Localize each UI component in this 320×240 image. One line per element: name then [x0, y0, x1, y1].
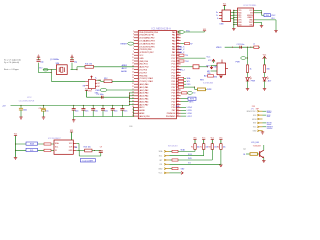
- svg-text:17: 17: [132, 74, 134, 76]
- svg-text:(T3/INT6) PE6: (T3/INT6) PE6: [139, 49, 151, 51]
- crystal Q1 body: [56, 65, 67, 75]
- LED LED2: [263, 78, 266, 81]
- IC3 left pin 6: [234, 21, 238, 23]
- junction C5 wire to bus: [129, 97, 130, 98]
- svg-text:18: 18: [132, 77, 134, 79]
- capacitor C3 10u polarized on rail: [43, 105, 44, 106]
- IC1 right pin 2: [176, 34, 180, 36]
- SV1 row3 wire with resistor: [169, 159, 172, 161]
- IC1 left pin 5: [134, 43, 138, 45]
- svg-text:IC5 MIC803: IC5 MIC803: [203, 82, 213, 84]
- wire stub gnd bus to IC1 pin row 28: [133, 109, 135, 111]
- svg-text:61: 61: [177, 112, 179, 114]
- wire VCC_IO horizontal: [225, 46, 260, 48]
- IC1 right pin 10: [176, 57, 180, 59]
- IC1 right pin 9: [176, 54, 180, 56]
- SV1 pin 1 contact: [164, 151, 166, 153]
- svg-text:41: 41: [177, 54, 179, 56]
- svg-text:58: 58: [177, 103, 179, 105]
- IC4 VCC top pin: [91, 77, 93, 80]
- IC4 right pin 3: [95, 85, 97, 87]
- ground rail under decoupling caps: [74, 116, 134, 118]
- X1 pin D- wire and label: [219, 14, 222, 16]
- boxed net flag LCD_A: [26, 142, 38, 145]
- svg-text:16M: 16M: [56, 63, 60, 65]
- junction: [133, 113, 134, 114]
- capacitor C6 22p at crystal left: [38, 63, 40, 73]
- svg-text:PC4: PC4: [172, 67, 176, 69]
- svg-text:PG1: PG1: [172, 81, 176, 83]
- svg-text:47: 47: [177, 71, 179, 73]
- JP1 pin 3 contact: [257, 118, 259, 120]
- IC1 right pin 13: [176, 66, 180, 68]
- IC1 right pin 18: [176, 80, 180, 82]
- svg-text:PDI/MOSI: PDI/MOSI: [167, 113, 176, 115]
- svg-text:PD6: PD6: [172, 90, 176, 92]
- ground small under IC3 right: [260, 25, 263, 27]
- capacitor C7 22p at crystal right: [71, 63, 73, 70]
- ferrite bead L1 inline: [254, 46, 259, 48]
- svg-text:C2,C3 DECOUPLE: C2,C3 DECOUPLE: [19, 100, 35, 102]
- svg-text:TDO: TDO: [185, 61, 189, 63]
- svg-text:Sx = C7 (adjusted): Sx = C7 (adjusted): [4, 58, 21, 61]
- svg-text:SCL: SCL: [187, 81, 191, 83]
- IC5 top pin: [221, 60, 223, 64]
- resistor inline row1: [44, 143, 51, 145]
- junction: [133, 110, 134, 111]
- wire to IC2 row2: [16, 149, 55, 151]
- IC3 left pin 1: [234, 9, 238, 11]
- ground symbol left of cap row: [73, 117, 75, 120]
- IC1 left pin 4: [134, 40, 138, 42]
- junction at crystal left: [51, 69, 52, 70]
- wires X1 to bus: [231, 11, 234, 13]
- svg-text:57: 57: [177, 100, 179, 102]
- IC1 left pin 9: [134, 54, 138, 56]
- JP1 pin 5 wire: [263, 126, 267, 128]
- IC1 right pin 28: [176, 109, 180, 111]
- svg-text:Best = +/-20ppm: Best = +/-20ppm: [4, 68, 19, 71]
- junction: [94, 150, 95, 151]
- IC1 left pin 30: [134, 115, 138, 117]
- wire up to R1: [194, 149, 196, 151]
- svg-text:10: 10: [132, 54, 134, 56]
- SV1 row2 wire: [169, 155, 203, 157]
- wire ladder bus left of IC3: [233, 10, 235, 24]
- svg-text:RESET: RESET: [121, 43, 128, 45]
- IC1 left pin 13: [134, 66, 138, 68]
- SV1 pin 5 contact: [164, 168, 166, 170]
- oval net flag PWR: [241, 57, 246, 60]
- capacitor C10 100n decoupling: [73, 105, 74, 106]
- IC1 right pin 23: [176, 95, 180, 97]
- svg-text:2X3: 2X3: [252, 106, 255, 108]
- power rail VCC horizontal wire: [11, 104, 130, 106]
- svg-text:55: 55: [177, 95, 179, 97]
- svg-text:npn: npn: [243, 149, 246, 151]
- svg-text:AGND: AGND: [139, 109, 145, 112]
- capacitor C5 100n inline: [100, 96, 102, 99]
- ground under IC3 left bus: [233, 25, 235, 29]
- svg-text:100n: 100n: [124, 111, 128, 113]
- IC1 left pin 12: [134, 63, 138, 65]
- resistor R3 pullup: [211, 144, 213, 150]
- svg-text:43: 43: [177, 60, 179, 62]
- svg-text:PDO/MISO: PDO/MISO: [166, 116, 176, 118]
- IC1 right pin 14: [176, 69, 180, 71]
- wire net row 28: [181, 109, 186, 111]
- junction: [133, 107, 134, 108]
- svg-text:37: 37: [177, 42, 179, 44]
- svg-text:100n: 100n: [94, 111, 98, 113]
- wire PEN to IC1: [107, 89, 134, 91]
- junction wire 2: [15, 150, 16, 151]
- resistor network box row 5: [181, 43, 185, 45]
- VCC symbol above R4: [220, 140, 222, 144]
- IC2 right pin 2: [73, 146, 76, 148]
- IC1 right pin 21: [176, 89, 180, 91]
- svg-text:T0: T0: [193, 93, 195, 95]
- ground above C6: [37, 56, 40, 58]
- svg-text:GND: GND: [214, 67, 219, 69]
- svg-text:R11 1M: R11 1M: [85, 64, 92, 66]
- svg-text:(AD1) PA1: (AD1) PA1: [139, 86, 148, 89]
- IC1 right pin 19: [176, 83, 180, 85]
- svg-text:X1: X1: [55, 150, 57, 152]
- resistor R6 330R: [263, 65, 265, 73]
- svg-text:USBDP: USBDP: [247, 17, 253, 19]
- wire JP1 GND pin down: [262, 131, 264, 132]
- svg-text:GND: GND: [158, 168, 163, 170]
- svg-text:IO1: IO1: [188, 163, 191, 165]
- svg-text:PC1: PC1: [172, 75, 176, 77]
- IC3 left pin 3: [234, 14, 238, 16]
- IC1 left pin 26: [134, 104, 138, 106]
- svg-text:(TOSC1) XTAL1: (TOSC1) XTAL1: [139, 80, 153, 83]
- IC1 left pin 6: [134, 46, 138, 48]
- resistor R11 1M inline in XTAL1 net: [85, 65, 94, 68]
- IC3 right wires to net flag: [254, 9, 262, 11]
- svg-text:LCD4: LCD4: [187, 107, 192, 109]
- svg-text:22p: 22p: [74, 61, 77, 63]
- IC1 right pin 27: [176, 106, 180, 108]
- wire stub bus to IC1 pin row 25: [130, 101, 135, 103]
- svg-text:XT2: XT2: [39, 68, 42, 70]
- svg-text:53: 53: [177, 89, 179, 91]
- wire continues below R4 to off-sheet arrow: [220, 163, 222, 165]
- svg-text:(ADC0) PF0: (ADC0) PF0: [139, 115, 149, 118]
- resistor R13 10k: [85, 149, 92, 152]
- svg-text:(OC3C/INT5) PE5: (OC3C/INT5) PE5: [139, 46, 154, 48]
- wire up to R4: [220, 149, 222, 164]
- IC2 body: [54, 140, 73, 154]
- svg-text:PC0: PC0: [172, 78, 176, 80]
- wire IC2 out row: [76, 143, 79, 145]
- SV1 row4 wire: [169, 163, 221, 165]
- VCC symbol left: [15, 136, 17, 158]
- IC1 left pin 14: [134, 69, 138, 71]
- JP1 pin 6 contact: [257, 130, 259, 132]
- junction crystal right: [76, 69, 77, 70]
- svg-text:(T2) PD7: (T2) PD7: [139, 72, 147, 74]
- wire vertical bus joining IC1 GND pins: [133, 107, 135, 116]
- svg-text:IO1: IO1: [159, 164, 162, 166]
- wire stub gnd bus to IC1 pin row 27: [133, 106, 135, 108]
- junction: [129, 104, 130, 105]
- IC1 right pin 25: [176, 101, 180, 103]
- svg-text:PG2: PG2: [172, 55, 176, 57]
- IC1 right pin 30: [176, 115, 180, 117]
- IC3 left pin 2: [234, 12, 238, 14]
- IC3 left pin 5: [234, 19, 238, 21]
- wire stub gnd bus to IC1 pin row 30: [133, 115, 135, 117]
- svg-text:VCC: VCC: [27, 97, 32, 99]
- boxed net flag LCD_B: [26, 148, 38, 151]
- wire from crystal right pin to R11: [71, 69, 78, 71]
- wire vertical to LED branch 1: [247, 47, 249, 65]
- svg-text:R15: R15: [208, 73, 211, 75]
- JP1 pin 5 contact: [257, 126, 259, 128]
- svg-text:SDA1: SDA1: [181, 149, 185, 152]
- svg-text:RST: RST: [253, 123, 256, 125]
- svg-text:LCD5: LCD5: [187, 110, 192, 112]
- X1 pin GND wire: [219, 17, 222, 19]
- IC1 left pin 3: [134, 37, 138, 39]
- IC1 right pin 5: [176, 43, 180, 45]
- SV1 row6 wire to arrow: [169, 172, 181, 174]
- capacitor C12 100n decoupling: [93, 105, 94, 106]
- net label row 25: [181, 101, 189, 103]
- svg-text:PC7: PC7: [172, 58, 176, 60]
- resistor R9 inline row 11: [179, 60, 181, 62]
- supply arrow into IC5 top: [213, 60, 215, 63]
- IC1 right pin 6: [176, 46, 180, 48]
- svg-text:330: 330: [267, 68, 270, 70]
- wire down from crystal-left junction: [50, 70, 52, 82]
- svg-text:21: 21: [132, 86, 134, 88]
- IC1 left pin 24: [134, 98, 138, 100]
- svg-text:AVCC: AVCC: [122, 67, 128, 70]
- wire LED1 to ground: [247, 81, 249, 89]
- IC1 left pin 1: [134, 31, 138, 33]
- wire branch down to power box: [194, 87, 196, 89]
- wire R12 to IC1 XTAL2 pin: [112, 80, 134, 82]
- svg-text:R2: R2: [200, 147, 202, 149]
- junction R4 branch with SV1 row4: [220, 164, 221, 165]
- IC4 right pin 2: [95, 82, 97, 84]
- IC5 left pin 1: [211, 65, 218, 67]
- svg-text:PD3: PD3: [172, 99, 176, 101]
- svg-text:GND: GND: [139, 58, 144, 60]
- svg-text:AGND: AGND: [121, 70, 127, 73]
- svg-text:PWR: PWR: [251, 81, 256, 83]
- IC5 supervisor body: [217, 63, 226, 75]
- ground under LED2: [263, 88, 266, 90]
- svg-text:L1: L1: [253, 44, 255, 46]
- resistor inline row 19: [178, 83, 180, 85]
- svg-text:36: 36: [177, 40, 179, 42]
- svg-text:X3-2: X3-2: [271, 15, 275, 17]
- IC1 left pin 29: [134, 112, 138, 114]
- IC4 left pin 1: [85, 80, 88, 82]
- junction right: [250, 47, 251, 48]
- resistor inline row 17: [178, 77, 180, 79]
- svg-text:D-: D-: [216, 15, 218, 17]
- SV1 pin 6 contact: [164, 172, 166, 174]
- IC1 left pin 19: [134, 83, 138, 85]
- wire vertical bus joining IC1 VCC pins: [129, 93, 131, 106]
- svg-text:PA3: PA3: [172, 40, 175, 43]
- IC1 right pin 12: [176, 63, 180, 65]
- svg-text:PEN (RXD0/PDI) PE0: PEN (RXD0/PDI) PE0: [139, 32, 158, 34]
- svg-text:(TOSC2) XTAL2: (TOSC2) XTAL2: [139, 77, 153, 80]
- junction: [129, 92, 130, 93]
- VCC symbol above R2: [203, 140, 205, 144]
- svg-text:USBDM: USBDM: [247, 15, 253, 17]
- svg-text:PE7: PE7: [172, 110, 176, 112]
- IC1 right pin 24: [176, 98, 180, 100]
- boxed net flag row 24: [181, 98, 188, 100]
- T1 collector wire: [263, 145, 265, 150]
- IC1 left pin 11: [134, 60, 138, 62]
- svg-text:V+: V+: [95, 77, 97, 79]
- svg-text:PA4_X: PA4_X: [179, 45, 185, 48]
- wire VCC spur row 10: [181, 57, 206, 59]
- resistor R2 pullup: [203, 144, 205, 150]
- svg-text:PD7: PD7: [172, 87, 176, 89]
- wire stub bus to IC1 pin row 24: [130, 98, 135, 100]
- wire XTAL1 from resistor to IC1: [94, 66, 135, 68]
- svg-text:IC1 MEGA128-A: IC1 MEGA128-A: [152, 26, 172, 30]
- IC3 left pin 4: [234, 17, 238, 19]
- svg-text:13: 13: [132, 63, 134, 65]
- VCC arrow above LED branch 2: [264, 57, 266, 65]
- wire stub bus to IC1 pin row 23: [130, 95, 135, 97]
- wire R5 to LED1: [247, 72, 249, 77]
- wire up to R3: [211, 149, 213, 160]
- wire XTAL2 long run: [51, 80, 85, 82]
- svg-text:(OC3B/INT4) PE4: (OC3B/INT4) PE4: [139, 43, 154, 45]
- IC1 left pin 2: [134, 34, 138, 36]
- svg-text:(XCK0/AIN0) PE2: (XCK0/AIN0) PE2: [139, 37, 154, 40]
- resistor R12 inline in XTAL2 net: [104, 80, 112, 83]
- JP1 pin 2 wire: [263, 114, 267, 116]
- svg-text:100n: 100n: [114, 111, 118, 113]
- svg-text:PA5: PA5: [172, 45, 175, 48]
- resistor R5 1k: [246, 65, 248, 73]
- svg-text:VCC: VCC: [186, 30, 191, 32]
- SV1 row1 wire with resistor: [169, 150, 172, 152]
- svg-text:44: 44: [177, 63, 179, 65]
- svg-text:AREF: AREF: [139, 112, 145, 115]
- junction: [129, 95, 130, 96]
- SV1 row5 wire with resistor: [169, 168, 172, 170]
- svg-text:VCC: VCC: [139, 55, 144, 57]
- wire net row 29: [181, 112, 186, 114]
- wire to IC2 row1: [16, 143, 55, 145]
- IC1 left pin 23: [134, 95, 138, 97]
- JP1 pin 4 wire: [263, 122, 267, 124]
- svg-text:PD5: PD5: [172, 93, 176, 95]
- svg-text:LCD_LED: LCD_LED: [251, 142, 260, 144]
- wire up to R2: [203, 149, 205, 155]
- svg-text:RTS: RTS: [238, 15, 241, 17]
- JP1 pin 2 contact: [257, 114, 259, 116]
- IC1 right pin 20: [176, 86, 180, 88]
- capacitor C9: [100, 150, 102, 152]
- svg-text:C5 100n: C5 100n: [97, 94, 104, 96]
- IC1 left pin 28: [134, 109, 138, 111]
- svg-text:PEN_J: PEN_J: [179, 70, 185, 72]
- IC1 left pin 15: [134, 72, 138, 74]
- svg-text:LCD6: LCD6: [187, 113, 192, 115]
- svg-text:R12: R12: [104, 78, 107, 80]
- ground under T1: [262, 160, 265, 162]
- svg-text:PA6_X: PA6_X: [179, 51, 185, 54]
- junction wire 1: [15, 143, 16, 144]
- connector X1 USB body: [222, 10, 231, 22]
- resistor inline row 18: [178, 80, 180, 82]
- X1 pin D+ wire and label: [219, 11, 222, 13]
- svg-text:100n: 100n: [104, 111, 108, 113]
- svg-text:IC2 DS1307Z: IC2 DS1307Z: [48, 138, 61, 140]
- supply arrow down row 13: [211, 66, 213, 69]
- IC1 left pin 8: [134, 51, 138, 53]
- resistor R15 near IC5: [208, 75, 214, 77]
- svg-text:(AD0) PA0: (AD0) PA0: [139, 83, 148, 86]
- svg-text:R3: R3: [208, 147, 210, 149]
- svg-text:PD4: PD4: [172, 96, 176, 98]
- IC3 left pin 7: [234, 24, 238, 26]
- svg-text:3V3: 3V3: [250, 12, 253, 14]
- junction: [129, 101, 130, 102]
- IC1 left pin 21: [134, 89, 138, 91]
- svg-text:22p: 22p: [40, 61, 43, 63]
- svg-text:PA1: PA1: [172, 34, 175, 37]
- wire net row 27: [181, 106, 186, 108]
- svg-text:MOSI: MOSI: [252, 119, 257, 121]
- VCC symbol above X1: [224, 5, 226, 10]
- svg-text:PA6: PA6: [172, 48, 175, 51]
- svg-text:34: 34: [177, 34, 179, 36]
- jumper component row 13: [181, 66, 193, 68]
- IC1 left pin 17: [134, 77, 138, 79]
- ground under C2: [19, 116, 22, 118]
- svg-text:(AD5) PA5: (AD5) PA5: [139, 98, 148, 101]
- wire oval flag to VCC bar: [184, 31, 204, 33]
- capacitor C15 100n decoupling: [122, 105, 123, 106]
- resistor inline row 20 with branch: [178, 86, 180, 88]
- svg-text:MISO/VTG 1: MISO/VTG 1: [247, 111, 257, 113]
- junction IC2 output: [78, 150, 79, 151]
- capacitor C14 100n decoupling: [112, 105, 113, 106]
- resistor base R14: [250, 153, 258, 156]
- capacitor C12 inline: [239, 46, 241, 49]
- svg-text:PC6: PC6: [172, 61, 176, 63]
- IC1 left pin 10: [134, 57, 138, 59]
- JP1 pin 1 wire: [263, 110, 267, 112]
- capacitor C2 100n on rail: [20, 105, 21, 106]
- oscillator buffer IC4 body: [88, 79, 95, 88]
- svg-text:SV1 I2C/IO: SV1 I2C/IO: [168, 145, 178, 147]
- svg-text:C12 100n: C12 100n: [237, 44, 245, 46]
- JP1 pin 4 contact: [257, 122, 259, 124]
- svg-text:R4: R4: [217, 147, 219, 149]
- wire LED2 to ground: [264, 81, 266, 89]
- LED LED1: [246, 78, 249, 81]
- ground under VCC stem: [14, 157, 17, 159]
- svg-text:15: 15: [132, 69, 134, 71]
